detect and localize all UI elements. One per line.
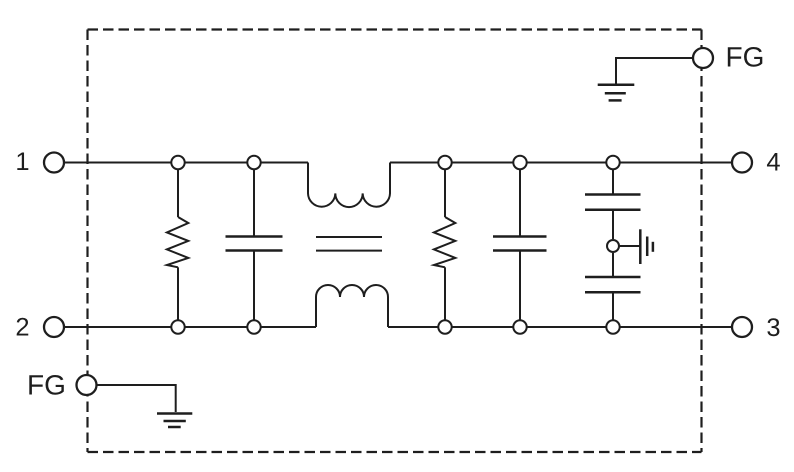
svg-text:3: 3 — [766, 314, 780, 342]
svg-text:4: 4 — [766, 149, 780, 177]
svg-text:FG: FG — [27, 370, 66, 401]
svg-text:FG: FG — [726, 42, 765, 73]
svg-text:2: 2 — [15, 314, 29, 342]
svg-text:1: 1 — [15, 148, 29, 176]
